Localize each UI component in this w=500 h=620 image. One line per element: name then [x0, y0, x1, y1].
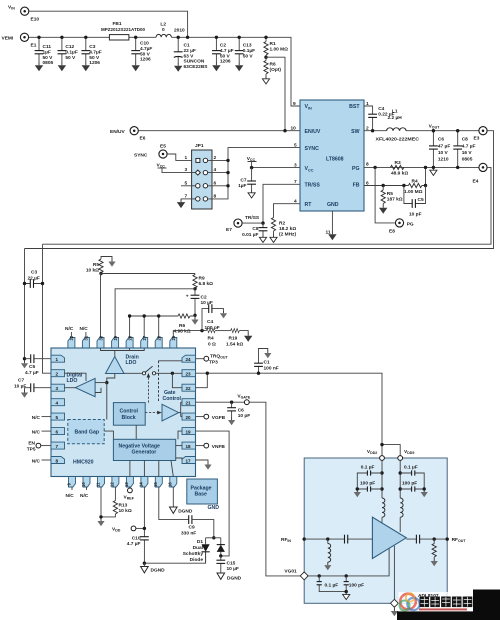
svg-text:4.7 µF: 4.7 µF [220, 48, 234, 54]
svg-text:10: 10 [81, 482, 86, 487]
svg-text:C5: C5 [418, 197, 424, 203]
node pin22/23 [206, 372, 209, 375]
capacitor C5 (pin1 bypass) [25, 354, 52, 376]
svg-text:18.2 kΩ: 18.2 kΩ [279, 226, 296, 232]
svg-text:0805: 0805 [43, 60, 54, 66]
svg-text:50 V: 50 V [43, 55, 54, 61]
svg-text:28: 28 [127, 335, 132, 340]
svg-text:Base: Base [195, 492, 208, 498]
svg-text:7: 7 [294, 179, 297, 185]
svg-text:E7: E7 [226, 227, 232, 233]
svg-text:C4: C4 [207, 319, 213, 325]
capacitor amp 100pF (VDD2) [357, 481, 382, 492]
wire VCC to pin3 [252, 167, 300, 169]
capacitor amp 0.1uF (VDD2) [357, 465, 382, 490]
wire E3 loop down [25, 131, 494, 249]
svg-text:EN: EN [28, 441, 35, 447]
connector E6 (EN/UV) [110, 127, 146, 142]
wire E5 to JP1 pin1 [167, 154, 191, 160]
svg-text:30: 30 [98, 335, 103, 340]
svg-text:Generator: Generator [132, 450, 157, 456]
svg-text:C7: C7 [240, 178, 246, 184]
svg-text:FB: FB [353, 183, 360, 189]
pin 2 [51, 370, 65, 377]
node VGFB terminal [196, 414, 226, 421]
svg-text:N/C: N/C [32, 415, 41, 421]
node TR/SS [261, 221, 264, 224]
svg-text:E3: E3 [474, 136, 480, 142]
svg-text:8: 8 [366, 162, 369, 168]
svg-text:SYNC: SYNC [305, 146, 320, 152]
wire rail left outer down [24, 249, 26, 359]
wire pin25 column [173, 331, 206, 338]
resistor R2 [270, 204, 300, 243]
node C10 [134, 36, 137, 39]
capacitor C2 (input) [212, 37, 234, 71]
wire control block to NVG [135, 425, 137, 439]
wire pin14 down [143, 487, 145, 563]
resistor R3 [390, 160, 408, 177]
pin 3 [51, 384, 65, 391]
node V_REF terminal [124, 487, 135, 501]
svg-text:N/C: N/C [66, 493, 75, 499]
svg-text:4: 4 [294, 199, 297, 205]
wire rail left inner down [43, 244, 52, 373]
wire RF_OUT [406, 538, 447, 540]
svg-text:0: 0 [162, 27, 165, 33]
wire NVG to bottom pins [130, 461, 173, 477]
capacitor C1 (bulk electrolytic) [174, 37, 208, 71]
node RF_IN [281, 537, 306, 543]
pin 7 [51, 442, 65, 449]
node VNFB terminal [196, 443, 226, 450]
svg-text:50 V: 50 V [65, 55, 76, 61]
svg-text:E8: E8 [389, 229, 395, 235]
node EN/UV junction [283, 129, 286, 132]
node VCC label JP1 [157, 163, 167, 169]
svg-text:PG: PG [352, 166, 360, 172]
pin 29 [112, 335, 119, 348]
ground DGND C10 [141, 563, 166, 573]
svg-text:10 pF: 10 pF [238, 413, 251, 419]
wire pin24 to control (dashed) [159, 361, 183, 403]
svg-text:5: 5 [294, 143, 297, 149]
svg-text:R4: R4 [412, 179, 418, 185]
wire pin30 column [101, 274, 196, 338]
svg-text:16: 16 [168, 482, 173, 487]
ground VDD5 caps [421, 489, 428, 497]
svg-text:9: 9 [293, 101, 296, 107]
node R1 bottom [264, 56, 267, 59]
svg-text:50 V: 50 V [140, 51, 151, 57]
op-amp digital LDO [67, 373, 96, 397]
svg-text:DGND: DGND [227, 576, 242, 582]
svg-text:10 pF: 10 pF [409, 212, 422, 218]
node VDD2 c1 [380, 471, 383, 474]
wire NVG to pin17 [176, 458, 182, 460]
svg-text:XFL4020-222MEC: XFL4020-222MEC [376, 137, 420, 143]
svg-text:GND: GND [208, 505, 220, 511]
svg-text:47 µF: 47 µF [438, 144, 450, 150]
switch S1 [142, 366, 155, 375]
svg-text:22 µF: 22 µF [28, 276, 40, 282]
wire VIN top [29, 11, 188, 37]
pin 32 [68, 335, 75, 348]
svg-text:L2: L2 [160, 22, 166, 28]
capacitor C4 (boost) [364, 106, 395, 131]
black corner blocks [473, 590, 500, 620]
node C5 junction [23, 357, 26, 360]
svg-text:TP3: TP3 [209, 360, 218, 366]
svg-text:R4: R4 [208, 336, 214, 342]
svg-text:Dual: Dual [193, 545, 203, 551]
svg-text:2: 2 [56, 372, 59, 377]
wire VDD2 branch [381, 460, 383, 498]
pin 28 [126, 335, 133, 348]
capacitor C9 (330nF) [181, 515, 214, 538]
node p26 [157, 314, 160, 317]
svg-text:10 µF: 10 µF [201, 300, 213, 306]
pin 15 [153, 477, 162, 488]
pin 25 [170, 335, 177, 348]
svg-text:JP1: JP1 [195, 143, 204, 149]
svg-text:Block: Block [122, 415, 136, 421]
wire choke to amp [381, 517, 383, 523]
resistor R6 (4.98k) [174, 314, 196, 335]
connector E8 (PG) [389, 219, 414, 235]
wire switch to pin23 [156, 372, 182, 374]
svg-text:26: 26 [157, 335, 162, 340]
wire LDO out to digital LDO [95, 382, 107, 384]
svg-text:8: 8 [56, 459, 59, 464]
wire LDO base step [107, 374, 115, 383]
pin 16 [168, 477, 177, 488]
wire VCC to JP1 pin3 [162, 168, 196, 173]
pin 13 [124, 477, 133, 488]
amplifier A1 [372, 517, 406, 558]
wire pin22 join [196, 373, 208, 388]
svg-text:1.54 kΩ: 1.54 kΩ [226, 342, 243, 348]
svg-text:1: 1 [185, 155, 188, 161]
ground DGND C15 [217, 573, 242, 582]
svg-text:R9: R9 [199, 276, 205, 282]
pin 4 [51, 399, 65, 406]
node N/C pin6 [32, 430, 51, 436]
pin 19 [182, 428, 196, 435]
svg-text:0.1 µF: 0.1 µF [361, 465, 375, 471]
connector E10 (VIN) [8, 5, 39, 23]
svg-text:HMC920: HMC920 [73, 460, 94, 466]
svg-text:D1: D1 [197, 539, 203, 545]
svg-text:50 V: 50 V [243, 53, 254, 59]
node R9 bottom [193, 287, 196, 290]
svg-text:Diode: Diode [190, 557, 204, 563]
svg-text:R19: R19 [229, 336, 238, 342]
capacitor amp 100pF (VDD5) [400, 481, 424, 492]
svg-text:0.01 µF: 0.01 µF [242, 232, 258, 238]
svg-text:1206: 1206 [140, 57, 151, 63]
node VDD5 c1 [399, 471, 402, 474]
svg-text:TR/SS: TR/SS [245, 215, 260, 221]
node VCC source [247, 156, 257, 168]
svg-text:13: 13 [124, 482, 129, 487]
svg-text:R5: R5 [387, 191, 393, 197]
svg-text:4: 4 [56, 401, 59, 406]
pin 8 [51, 457, 65, 464]
resistor R19 [226, 329, 252, 348]
svg-text:VEMI: VEMI [2, 36, 14, 42]
op-amp drain LDO [106, 355, 139, 374]
wire SW [364, 130, 387, 132]
wire band gap to NVG [104, 431, 113, 439]
capacitor C6 (output) [429, 131, 450, 168]
svg-text:C4: C4 [378, 106, 384, 112]
svg-text:FB1: FB1 [113, 21, 122, 27]
wire GND pin11 [331, 211, 333, 231]
node C8 top [456, 129, 459, 132]
svg-text:100 pF: 100 pF [402, 481, 417, 487]
node N/C pin8 [32, 459, 51, 465]
resistor R9 [193, 274, 213, 289]
svg-text:14: 14 [139, 482, 144, 487]
wire LDO base to switch [124, 372, 142, 374]
wire PG rail [364, 166, 487, 168]
wire EN/UV [138, 130, 300, 132]
wire VDD5 branch [399, 460, 401, 498]
wire E4 loop down [43, 167, 492, 244]
inductor VDD5 choke [400, 498, 403, 517]
node VG01 c2 [345, 574, 348, 577]
wire pin11 down [100, 487, 102, 517]
wire VOUT [406, 130, 479, 132]
svg-text:0 Ω: 0 Ω [208, 342, 216, 348]
pin 10 [81, 477, 90, 488]
connector E4 [473, 163, 488, 184]
pin 5 [51, 413, 65, 420]
svg-text:29: 29 [113, 335, 118, 340]
resistor R4 (FB upper) [404, 167, 426, 194]
node V_GATE terminal [196, 394, 302, 576]
svg-text:DGND: DGND [151, 568, 166, 574]
node N/C pin31 [80, 326, 89, 338]
svg-text:E1: E1 [31, 43, 37, 49]
node R1 top [264, 36, 267, 39]
capacitor VG01 0.1uF [317, 576, 347, 592]
pin 24 [182, 355, 196, 362]
svg-text:C9: C9 [189, 525, 195, 531]
ground LT8608 [328, 231, 336, 240]
pin 20 [182, 413, 196, 420]
svg-text:187 kΩ: 187 kΩ [387, 197, 403, 203]
svg-text:0805: 0805 [462, 157, 473, 163]
svg-text:TP5: TP5 [27, 447, 36, 453]
svg-text:MPZ2012S221ATD00: MPZ2012S221ATD00 [101, 27, 145, 33]
svg-text:100 pF: 100 pF [349, 583, 364, 589]
svg-text:EN/UV: EN/UV [110, 129, 125, 135]
pin 30 [97, 335, 104, 348]
svg-text:EN/UV: EN/UV [305, 129, 321, 135]
svg-text:VGFB: VGFB [212, 415, 226, 421]
svg-text:SW: SW [351, 129, 359, 135]
node VIN drop [186, 36, 189, 39]
svg-text:4.7µF: 4.7µF [140, 46, 152, 52]
node N/C pin32 [65, 326, 74, 338]
svg-text:1.00 MΩ: 1.00 MΩ [270, 46, 289, 52]
wire PG to E8 [375, 167, 395, 223]
node C1 [257, 372, 260, 375]
svg-text:5: 5 [56, 415, 59, 420]
svg-text:+: + [186, 295, 189, 300]
node C6 top [432, 129, 435, 132]
wire dashed control to switch [147, 373, 151, 403]
node EN/TP5 terminal [27, 441, 51, 453]
svg-text:11: 11 [326, 230, 331, 236]
wire pins 28,27,26 columns [130, 316, 178, 338]
svg-text:C10: C10 [132, 536, 141, 542]
node C6 bottom [432, 166, 435, 169]
svg-text:1µF: 1µF [238, 183, 246, 189]
wire JP1 right pins to SYNC [208, 148, 300, 199]
svg-text:R2: R2 [279, 221, 285, 227]
svg-text:330 nF: 330 nF [181, 531, 196, 537]
svg-text:C2: C2 [201, 295, 207, 301]
negative voltage generator [113, 439, 175, 460]
svg-text:16 V: 16 V [462, 150, 473, 156]
node C12 [60, 36, 63, 39]
resistor R4 (0 ohm) [206, 329, 216, 348]
wire TR/SS [242, 184, 300, 223]
svg-text:VG01: VG01 [284, 569, 297, 575]
capacitor C4 (100pF) [202, 304, 227, 331]
svg-text:LT8608: LT8608 [326, 157, 344, 163]
wire pin29 column [115, 289, 195, 338]
node VDD/pin14 [143, 527, 146, 530]
svg-text:N/C: N/C [32, 430, 41, 436]
svg-text:E6: E6 [140, 136, 146, 142]
svg-text:1.00 MΩ: 1.00 MΩ [404, 189, 423, 195]
node C11 [37, 36, 40, 39]
svg-text:100 pF: 100 pF [360, 481, 375, 487]
node p27 [143, 314, 146, 317]
node C13 [238, 36, 241, 39]
svg-text:19: 19 [186, 430, 192, 435]
node C10 bottom [143, 562, 146, 565]
node C1 [177, 36, 180, 39]
node RF_OUT shunt [433, 537, 436, 540]
wire bus after FB1 [129, 36, 156, 38]
svg-text:0.1 µF: 0.1 µF [325, 583, 339, 589]
node VG01 c1 [318, 574, 321, 577]
connector E7 (TR/SS) [226, 215, 260, 233]
ferrite bead FB1 [101, 21, 145, 40]
svg-text:22: 22 [186, 386, 192, 391]
ground VDD2 caps [354, 489, 361, 497]
pin 26 [155, 335, 162, 348]
op-amp U2 HMC920 body [51, 348, 196, 477]
svg-text:C3: C3 [31, 270, 37, 276]
svg-text:10 µF: 10 µF [14, 384, 26, 390]
ground JP1 [177, 199, 185, 208]
ground output rail [430, 167, 437, 175]
node PG/E8 [373, 166, 376, 169]
svg-text:3: 3 [56, 386, 59, 391]
resistor RF_OUT shunt [431, 539, 438, 566]
node VDD2 entry [367, 449, 385, 460]
watermark panel [399, 592, 474, 611]
svg-text:C8: C8 [462, 137, 468, 143]
pin 17 [182, 457, 196, 464]
inductor VDD2 choke [382, 498, 385, 517]
capacitor C12 [58, 37, 78, 71]
watermark red subtext [419, 608, 467, 610]
svg-text:(Opt): (Opt) [270, 67, 282, 73]
node R5 bottom [99, 272, 102, 275]
svg-text:17: 17 [186, 459, 192, 464]
svg-text:1206: 1206 [220, 59, 231, 65]
node VDD5 c2 [399, 487, 402, 490]
node diode top [212, 536, 215, 539]
svg-text:N/C: N/C [80, 493, 89, 499]
node R5 tap [382, 184, 385, 187]
svg-text:10 kΩ: 10 kΩ [119, 508, 132, 514]
svg-text:12: 12 [110, 482, 115, 487]
node C3 left [23, 282, 26, 285]
pin 6 [51, 428, 65, 435]
wire LDO out down [106, 383, 108, 420]
ground C5 node [21, 360, 28, 368]
node diode/C15 [219, 554, 222, 557]
wire pin15 to C9 [159, 487, 189, 520]
wire pins 22-23 inner loop [172, 373, 182, 387]
svg-text:DGND: DGND [178, 509, 193, 515]
pin 9 [66, 477, 75, 488]
svg-text:22 µF: 22 µF [184, 48, 196, 54]
control block [113, 403, 145, 426]
resistor R13 [101, 487, 132, 517]
svg-text:4.7 µF: 4.7 µF [462, 144, 476, 150]
node R3 right [424, 166, 427, 169]
node R4 left [402, 184, 405, 187]
svg-text:R6: R6 [179, 323, 185, 329]
node N/C pin5 [32, 415, 51, 421]
svg-text:10 µF: 10 µF [227, 566, 239, 572]
svg-text:SUNCON: SUNCON [184, 59, 205, 65]
wire internal top rail [101, 348, 145, 357]
node VG01 gnd [345, 590, 348, 593]
wire JP1 pin5 stub [181, 185, 196, 187]
wire gate control out [179, 402, 182, 416]
wire pin2 to digital LDO [65, 373, 87, 381]
svg-text:0.1µF: 0.1µF [65, 49, 77, 55]
watermark logo [400, 593, 420, 610]
capacitor C15 [216, 556, 239, 573]
ground pin17 [204, 462, 211, 470]
wire digital LDO base feedback [95, 388, 101, 393]
capacitor C2 (10uF) [186, 289, 213, 316]
svg-text:27: 27 [142, 335, 147, 340]
svg-text:C5: C5 [29, 364, 35, 370]
svg-text:10: 10 [291, 126, 297, 132]
svg-text:C1: C1 [184, 43, 190, 49]
svg-text:21: 21 [186, 401, 192, 406]
svg-text:6.8 kΩ: 6.8 kΩ [199, 281, 214, 287]
pin 31 [82, 335, 89, 348]
capacitor C1 (100nF) [254, 349, 279, 374]
resistor R5 (FB lower) [379, 186, 403, 214]
svg-text:LDO: LDO [67, 378, 78, 384]
wire pin17 ground [196, 460, 209, 462]
wire DGND rail to diode [144, 552, 205, 563]
